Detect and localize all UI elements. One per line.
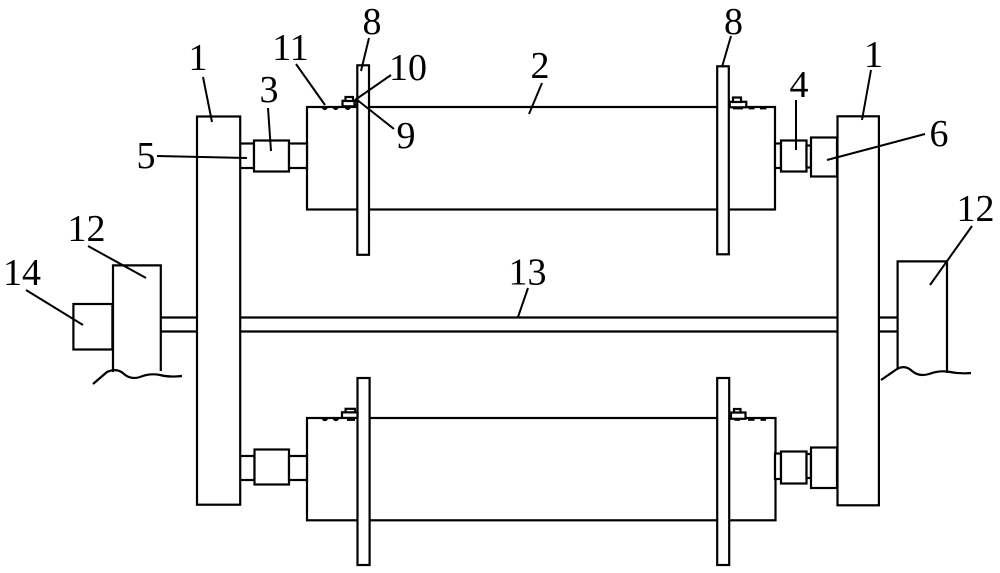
svg-text:8: 8 (363, 1, 382, 43)
svg-text:6: 6 (930, 113, 949, 155)
svg-text:11: 11 (272, 27, 309, 69)
svg-text:4: 4 (790, 64, 809, 106)
svg-text:12: 12 (68, 208, 106, 250)
svg-text:1: 1 (864, 34, 883, 76)
svg-text:8: 8 (724, 1, 743, 43)
svg-text:14: 14 (3, 252, 41, 294)
svg-text:12: 12 (957, 188, 995, 230)
svg-text:1: 1 (189, 37, 208, 79)
svg-text:2: 2 (531, 45, 550, 87)
svg-text:5: 5 (137, 135, 156, 177)
svg-text:3: 3 (260, 69, 279, 111)
svg-text:13: 13 (509, 252, 547, 294)
svg-text:9: 9 (397, 115, 416, 157)
svg-text:10: 10 (389, 47, 427, 89)
